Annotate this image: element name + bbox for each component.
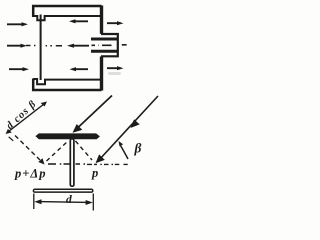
vessel inner top wall with notch — [33, 16, 100, 20]
vessel outer bottom wall — [33, 79, 101, 91]
inside arrow top (points left) — [69, 19, 88, 23]
dashed line vertex-left to stem — [47, 141, 69, 161]
right outside arrow 1 — [107, 21, 124, 25]
svg-text:d: d — [66, 194, 72, 206]
dimension line d with arrows — [34, 199, 93, 205]
lower bar (disc front thickness) — [33, 189, 92, 192]
nozzle outer block — [101, 34, 118, 56]
inside arrow middle on axis (points left) — [67, 44, 89, 48]
lid (left piston plate) — [40, 15, 42, 81]
beta direction line — [96, 96, 159, 163]
right wall upper segment — [100, 6, 103, 34]
its arrowhead — [38, 158, 44, 164]
disc (edge view) — [36, 134, 99, 139]
left outside arrow 1 — [7, 22, 28, 26]
svg-text:β: β — [134, 141, 142, 156]
end arrowhead at axis vertex — [96, 154, 105, 163]
d cos beta dimension line — [6, 102, 48, 141]
nozzle lower bore wall — [91, 50, 117, 53]
centerline dash-dot through nozzle — [92, 44, 127, 47]
pin / stem — [70, 139, 74, 186]
centerline dash-dot left of arrow — [26, 45, 62, 47]
vessel inner bottom wall with notch — [33, 79, 100, 84]
nozzle upper bore wall — [91, 38, 117, 41]
right wall lower segment — [100, 57, 103, 91]
angle arc arrow — [119, 141, 129, 159]
left outside arrow 2 — [7, 44, 27, 48]
faint scan smudge — [108, 72, 121, 75]
mid arrowhead on beta line — [131, 119, 140, 128]
extension lines — [34, 194, 94, 211]
axis dash-dot — [48, 163, 128, 165]
incident arrow onto disc — [73, 96, 113, 133]
left outside arrow 3 — [9, 67, 29, 71]
svg-text:p+Δp: p+Δp — [14, 167, 46, 181]
dashed line stem to vertex-right — [76, 141, 93, 160]
right outside arrow 2 — [107, 66, 124, 70]
inside arrow bottom (points left) — [70, 67, 89, 71]
vessel outer top wall — [33, 6, 101, 17]
dashed incident stream at left — [15, 136, 40, 161]
svg-text:p: p — [91, 166, 98, 180]
